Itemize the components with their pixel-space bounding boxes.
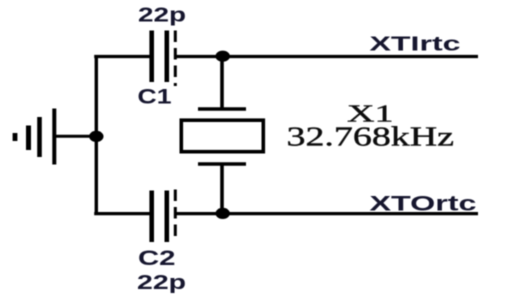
svg-text:C2: C2 [138, 246, 176, 270]
wire left bus [95, 55, 98, 215]
capacitor C1 [152, 31, 176, 87]
node junction ground [89, 131, 103, 142]
node junction top [216, 51, 230, 62]
svg-text:32.768kHz: 32.768kHz [287, 122, 455, 152]
crystal X1 [181, 57, 263, 214]
wire bottom right [175, 212, 478, 215]
wire bottom left [94, 212, 150, 215]
node junction bottom [216, 208, 230, 219]
ground [15, 109, 96, 165]
wire top right [175, 55, 478, 58]
capacitor C2 [152, 190, 176, 243]
svg-text:XTIrtc: XTIrtc [370, 34, 461, 56]
wire top left [94, 55, 150, 58]
svg-text:C1: C1 [138, 86, 172, 109]
svg-text:22p: 22p [137, 271, 186, 294]
svg-text:22p: 22p [138, 4, 186, 27]
svg-text:XTOrtc: XTOrtc [370, 193, 477, 216]
